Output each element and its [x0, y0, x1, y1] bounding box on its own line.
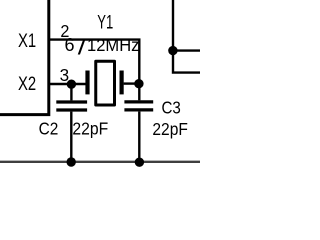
wire C2 bottom lead: [70, 112, 72, 162]
node junction dot X1 net: [134, 79, 143, 88]
svg-text:Y1: Y1: [97, 11, 113, 33]
svg-text:X2: X2: [18, 72, 36, 95]
capacitor C3 top plate: [124, 100, 153, 103]
wire C2 top lead: [70, 84, 72, 100]
crystal Y1 body: [96, 61, 115, 105]
svg-text:12MHz: 12MHz: [87, 35, 139, 56]
svg-text:22pF: 22pF: [72, 119, 108, 139]
node junction dot right net: [168, 46, 177, 55]
node junction dot C2 rail: [67, 157, 76, 166]
svg-text:C2: C2: [39, 119, 59, 139]
svg-text:X1: X1: [18, 29, 36, 52]
wire C3 top lead: [138, 84, 140, 101]
crystal Y1 right plate: [119, 71, 123, 95]
crystal Y1 left plate: [85, 71, 89, 95]
wire crystal right plate to node: [124, 82, 140, 84]
svg-text:22pF: 22pF: [152, 119, 187, 139]
node junction dot C3 rail: [135, 158, 144, 167]
capacitor C3 bottom plate: [124, 108, 153, 111]
node junction dot X2 net: [67, 80, 76, 89]
svg-text:C3: C3: [162, 97, 181, 118]
IC U1 box edge: [0, 0, 49, 115]
wire right branch: [173, 49, 200, 51]
wire right vertical net: [173, 0, 200, 73]
wire pin2 X1 to crystal right node: [49, 40, 140, 84]
capacitor C2 top plate: [56, 100, 87, 103]
svg-text:6: 6: [65, 35, 75, 55]
capacitor C2 bottom plate: [56, 108, 87, 111]
ground rail wire: [0, 161, 200, 163]
svg-text:/: /: [78, 36, 86, 60]
wire pin3 X2 to crystal left plate: [49, 83, 86, 85]
wire C3 bottom lead: [138, 112, 140, 162]
